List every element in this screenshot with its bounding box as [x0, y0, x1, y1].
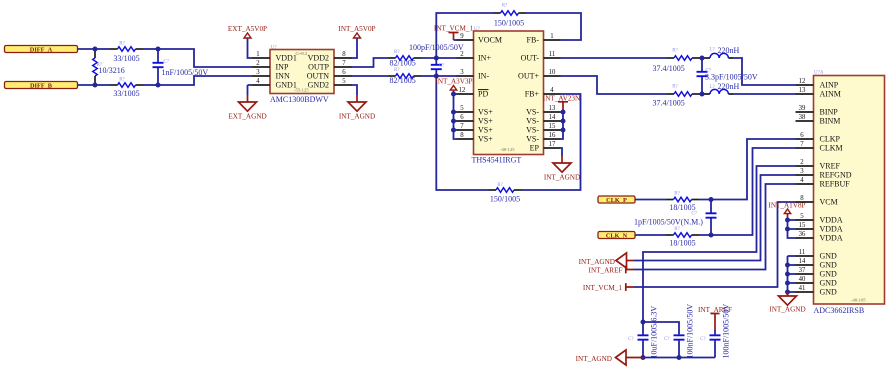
- svg-text:6: 6: [342, 69, 346, 76]
- svg-text:INT_AGND: INT_AGND: [769, 305, 805, 313]
- svg-text:VCM: VCM: [820, 198, 838, 207]
- svg-text:R?: R?: [394, 68, 400, 73]
- svg-text:100nF/1005/50V: 100nF/1005/50V: [686, 304, 695, 359]
- svg-text:U?A: U?A: [814, 71, 824, 76]
- pin 12 AINP: [796, 84, 814, 86]
- svg-text:C?: C?: [439, 63, 445, 68]
- svg-text:C?: C?: [628, 337, 634, 342]
- resistor R? 33/1005 top: [110, 48, 118, 50]
- svg-text:3.3pF/1005/50V: 3.3pF/1005/50V: [705, 72, 758, 81]
- svg-text:INT_AGND: INT_AGND: [339, 113, 375, 121]
- svg-text:BINP: BINP: [820, 108, 839, 117]
- svg-text:AMC1300BDWV: AMC1300BDWV: [270, 95, 329, 104]
- svg-text:220nH: 220nH: [718, 82, 740, 91]
- svg-text:R?: R?: [119, 42, 125, 47]
- svg-text:GND: GND: [820, 270, 838, 279]
- svg-text:INT_AREF: INT_AREF: [589, 266, 623, 274]
- svg-text:4: 4: [800, 177, 804, 184]
- svg-text:9: 9: [460, 33, 464, 40]
- svg-text:IN-: IN-: [478, 72, 489, 81]
- svg-text:VREF: VREF: [820, 162, 841, 171]
- capacitor C? 10uF/1005/6.3V: [642, 322, 644, 334]
- resistor R? 150/1005 top feedback: [493, 12, 501, 14]
- svg-text:INT_VCM_1: INT_VCM_1: [583, 284, 623, 292]
- junction VS+ 5: [451, 110, 456, 115]
- wire VS- bus: [561, 112, 564, 139]
- junction CLKM: [709, 233, 714, 238]
- svg-text:18/1005: 18/1005: [669, 238, 695, 247]
- resistor R? 82/1005 top: [388, 57, 396, 59]
- svg-text:U?: U?: [271, 45, 278, 50]
- pin 3 REFGND: [796, 174, 814, 176]
- svg-text:C?: C?: [664, 337, 670, 342]
- capacitor C? 1nF/1005/50V: [157, 49, 159, 62]
- power INT_AGND at EP: [561, 148, 563, 156]
- pin 3 INN: [252, 75, 270, 77]
- port CLK_P: [598, 196, 635, 203]
- junction GND 40: [785, 281, 790, 286]
- junction PD: [451, 92, 456, 97]
- svg-text:DIFF_A: DIFF_A: [30, 46, 53, 53]
- resistor R? 18/1005 bottom: [666, 234, 674, 236]
- power INT_AGND at AMC: [352, 85, 357, 95]
- svg-text:FB-: FB-: [527, 36, 540, 45]
- power INT_AGND at ADC: [787, 292, 789, 296]
- svg-text:R?: R?: [672, 49, 678, 54]
- svg-text:VDDA: VDDA: [820, 216, 843, 225]
- junction node B: [93, 83, 98, 88]
- svg-text:CLKP: CLKP: [820, 135, 841, 144]
- power EXT_AGND: [247, 85, 249, 95]
- svg-text:R?: R?: [497, 183, 503, 188]
- svg-text:OUTN: OUTN: [307, 72, 329, 81]
- svg-text:GND2: GND2: [308, 81, 329, 90]
- svg-text:G=8.2: G=8.2: [296, 51, 308, 56]
- svg-text:CLKM: CLKM: [820, 144, 843, 153]
- svg-text:EXT_AGND: EXT_AGND: [228, 113, 266, 121]
- svg-text:INT_AGND: INT_AGND: [576, 355, 612, 363]
- wire REFBUF to INT_AREF: [634, 184, 796, 270]
- svg-text:U?: U?: [474, 27, 481, 32]
- svg-text:2: 2: [460, 51, 464, 58]
- wire inductor to AINM: [734, 93, 796, 95]
- pin 2 VREF: [796, 165, 814, 167]
- pin 7 OUTP: [334, 66, 352, 68]
- svg-text:AINM: AINM: [820, 90, 841, 99]
- svg-text:14: 14: [799, 258, 806, 265]
- svg-text:220nH: 220nH: [718, 46, 740, 55]
- svg-text:THS4541IRGT: THS4541IRGT: [472, 156, 522, 165]
- svg-text:11: 11: [549, 51, 556, 58]
- wire decoupling top rail: [643, 322, 679, 334]
- junction rail at C1: [641, 320, 646, 325]
- svg-text:1: 1: [256, 51, 259, 58]
- wire VS+ bus: [454, 93, 457, 95]
- svg-text:6: 6: [800, 132, 804, 139]
- wire to junction bottom: [700, 93, 705, 95]
- svg-text:EP: EP: [530, 144, 540, 153]
- port DIFF_B: [5, 82, 78, 89]
- svg-text:R?: R?: [674, 227, 680, 232]
- pin 16 VS-: [544, 138, 561, 140]
- pin 7 VS+: [457, 129, 474, 131]
- svg-text:REFBUF: REFBUF: [820, 180, 851, 189]
- svg-text:8: 8: [460, 132, 464, 139]
- resistor R? 82/1005 bottom: [388, 75, 396, 77]
- svg-text:CLK_P: CLK_P: [606, 197, 627, 204]
- svg-text:INN: INN: [276, 72, 290, 81]
- svg-text:R?: R?: [672, 85, 678, 90]
- port DIFF_A: [5, 46, 78, 53]
- svg-text:14: 14: [549, 114, 556, 121]
- svg-text:VS-: VS-: [526, 117, 539, 126]
- wire DIFF_A to node: [78, 48, 96, 50]
- svg-text:VDDA: VDDA: [820, 234, 843, 243]
- pin 13 VS-: [544, 111, 561, 113]
- svg-text:13: 13: [549, 105, 556, 112]
- svg-text:-40-105: -40-105: [851, 297, 866, 302]
- wire GND1: [248, 84, 253, 86]
- svg-text:100nF/1005/50V: 100nF/1005/50V: [722, 304, 731, 359]
- svg-text:4: 4: [550, 87, 554, 94]
- wire DIFF_B to node: [78, 84, 96, 86]
- svg-text:1nF/1005/50V: 1nF/1005/50V: [162, 68, 209, 77]
- pin 13 AINM: [796, 93, 814, 95]
- svg-text:4: 4: [256, 78, 260, 85]
- junction IN- node: [434, 74, 439, 79]
- svg-text:C?: C?: [692, 211, 698, 216]
- svg-text:INP: INP: [276, 63, 289, 72]
- pin 1 VDD1: [252, 57, 270, 59]
- svg-text:VS+: VS+: [478, 126, 493, 135]
- svg-text:R?: R?: [394, 50, 400, 55]
- svg-text:38: 38: [799, 114, 806, 121]
- svg-text:2: 2: [256, 60, 260, 67]
- pin 40 GND: [796, 282, 814, 284]
- resistor R? 37.4/1005 bottom: [667, 93, 675, 95]
- port CLK_N: [598, 232, 635, 239]
- svg-text:EXT_A5V0P: EXT_A5V0P: [228, 25, 267, 33]
- svg-text:R?: R?: [502, 3, 508, 8]
- junction VS- 15: [561, 128, 566, 133]
- svg-text:CLK_N: CLK_N: [606, 232, 628, 239]
- pin 6 OUTN: [334, 75, 352, 77]
- wire feedback top: [436, 13, 493, 58]
- svg-text:40: 40: [799, 276, 806, 283]
- svg-text:VS-: VS-: [526, 135, 539, 144]
- wire VCM to INT_VCM_1: [634, 202, 796, 287]
- svg-text:33/1005: 33/1005: [113, 89, 139, 98]
- pin 37 GND: [796, 273, 814, 275]
- wire OUT- to filter: [561, 57, 667, 59]
- svg-text:7: 7: [800, 141, 804, 148]
- svg-text:VS+: VS+: [478, 117, 493, 126]
- svg-text:5: 5: [460, 105, 464, 112]
- pin 36 VDDA: [796, 237, 814, 239]
- svg-text:37: 37: [799, 267, 806, 274]
- svg-text:OUT-: OUT-: [521, 54, 540, 63]
- resistor R? 33/1005 bottom: [110, 84, 118, 86]
- pin 4 FB+: [544, 93, 561, 95]
- svg-text:12: 12: [459, 87, 466, 94]
- svg-text:VOCM: VOCM: [478, 36, 502, 45]
- svg-text:10uF/1005/6.3V: 10uF/1005/6.3V: [650, 306, 659, 359]
- wire CLK_P to R: [635, 199, 666, 201]
- junction VS+ 6: [451, 119, 456, 124]
- svg-text:39: 39: [799, 105, 806, 112]
- svg-text:VDD1: VDD1: [276, 54, 297, 63]
- svg-text:8: 8: [342, 51, 346, 58]
- svg-text:10/3216: 10/3216: [99, 66, 125, 75]
- svg-text:R?: R?: [674, 191, 680, 196]
- pin 14 VS-: [544, 120, 561, 122]
- resistor R? 10/3216 shunt: [94, 51, 96, 59]
- svg-text:GND: GND: [820, 288, 838, 297]
- junction filter bottom: [700, 92, 705, 97]
- wire OUTN: [352, 75, 388, 77]
- svg-text:15: 15: [799, 222, 806, 229]
- pin 5 VS+: [457, 111, 474, 113]
- pin 8 VS+: [457, 138, 474, 140]
- pin 6 CLKP: [796, 138, 814, 140]
- pin 4 REFBUF: [796, 183, 814, 185]
- svg-text:13: 13: [799, 87, 806, 94]
- junction VS+ 7: [451, 128, 456, 133]
- svg-text:VDDA: VDDA: [820, 225, 843, 234]
- pin 14 GND: [796, 264, 814, 266]
- svg-text:11: 11: [799, 249, 806, 256]
- capacitor C? 100pF/1005/50V across inputs: [435, 58, 437, 64]
- resistor R? 18/1005 top: [666, 199, 674, 201]
- junction GND 41: [785, 290, 790, 295]
- wire R to IN- node: [421, 75, 457, 77]
- svg-text:INT_AGND: INT_AGND: [579, 258, 615, 266]
- svg-text:INT_A3V3P: INT_A3V3P: [435, 78, 472, 86]
- pin 4 GND1: [252, 84, 270, 86]
- wire node B bottom rail: [95, 84, 110, 86]
- pin 2 INP: [252, 66, 270, 68]
- pin 3 IN-: [457, 75, 474, 77]
- wire CLK_N to R: [635, 234, 666, 236]
- svg-text:R?: R?: [119, 78, 125, 83]
- svg-text:ADC3662IRSB: ADC3662IRSB: [814, 306, 865, 315]
- junction VS- 14: [561, 119, 566, 124]
- op-amp U? AMC1300BDWV isolated amplifier: [270, 50, 334, 94]
- pin 38 BINM: [796, 120, 814, 122]
- pin 17 EP: [544, 147, 561, 149]
- wire OUT+ jog down: [561, 76, 667, 94]
- svg-text:VDD2: VDD2: [308, 54, 329, 63]
- svg-text:150/1005: 150/1005: [494, 19, 524, 28]
- pin 11 OUT-: [544, 57, 561, 59]
- wire VDDA bus: [788, 220, 796, 238]
- wire OUTP jog: [352, 58, 388, 67]
- pin 1 FB-: [544, 39, 561, 41]
- wire to junction: [700, 57, 705, 59]
- wire node A to R and C top rail: [95, 48, 110, 50]
- svg-text:37.4/1005: 37.4/1005: [653, 99, 685, 108]
- inductor L? 220nH top: [705, 57, 734, 59]
- resistor R? 37.4/1005 top: [667, 57, 675, 59]
- junction top rail at C: [156, 47, 161, 52]
- svg-text:12: 12: [799, 78, 806, 85]
- pin 2 IN+: [457, 57, 474, 59]
- wire GND bus: [788, 255, 796, 257]
- svg-text:5: 5: [800, 213, 804, 220]
- svg-text:7: 7: [342, 60, 346, 67]
- svg-text:INT_AGND: INT_AGND: [544, 173, 580, 181]
- pin 8 VDD2: [334, 57, 352, 59]
- op-amp U? THS4541IRGT fully differential amplifier: [474, 31, 544, 155]
- pin 8 VCM: [796, 201, 814, 203]
- pin 9 VOCM: [457, 39, 474, 41]
- svg-text:-40-125: -40-125: [500, 147, 515, 152]
- svg-text:VS+: VS+: [478, 108, 493, 117]
- wire bottom rail jog into INN: [158, 76, 252, 85]
- svg-text:37.4/1005: 37.4/1005: [653, 64, 685, 73]
- svg-text:VS+: VS+: [478, 135, 493, 144]
- svg-text:3: 3: [460, 69, 464, 76]
- svg-text:C?: C?: [700, 337, 706, 342]
- svg-text:BINM: BINM: [820, 117, 841, 126]
- svg-text:5: 5: [342, 78, 346, 85]
- svg-text:17: 17: [549, 141, 556, 148]
- pin 41 GND: [796, 291, 814, 293]
- svg-text:2: 2: [800, 159, 804, 166]
- svg-text:82/1005: 82/1005: [390, 76, 416, 85]
- junction VDDA 15: [785, 227, 790, 232]
- wire top rail to jog into INP: [158, 49, 252, 67]
- svg-text:GND: GND: [820, 279, 838, 288]
- svg-text:1: 1: [550, 33, 553, 40]
- svg-text:PD: PD: [478, 90, 488, 99]
- svg-text:DIFF_B: DIFF_B: [30, 82, 53, 89]
- pin 10 OUT+: [544, 75, 561, 77]
- wire REFGND to INT_AGND: [634, 175, 796, 261]
- svg-text:FB+: FB+: [525, 90, 540, 99]
- ADC U?A ADC3662IRSB: [814, 76, 885, 305]
- svg-text:L?: L?: [710, 85, 716, 90]
- svg-text:16: 16: [549, 132, 556, 139]
- svg-text:3: 3: [256, 69, 260, 76]
- svg-text:82/1005: 82/1005: [390, 59, 416, 68]
- svg-text:IN+: IN+: [478, 54, 491, 63]
- svg-text:1pF/1005/50V(N.M.): 1pF/1005/50V(N.M.): [634, 217, 703, 226]
- junction IN+ node: [434, 56, 439, 61]
- svg-text:INT_A5V0P: INT_A5V0P: [338, 25, 375, 33]
- wire to CLKP junction: [699, 139, 796, 200]
- capacitor C? 1pF/1005/50V(N.M.) across clock: [710, 200, 712, 213]
- junction bottom rail C2: [677, 355, 682, 360]
- junction bottom rail C1: [641, 355, 646, 360]
- svg-text:8: 8: [800, 195, 804, 202]
- capacitor C? 100nF/1005/50V second: [714, 330, 716, 334]
- junction CLKP: [709, 197, 714, 202]
- svg-text:VS-: VS-: [526, 108, 539, 117]
- pin 6 VS+: [457, 120, 474, 122]
- pin 5 GND2: [334, 84, 352, 86]
- pin 5 VDDA: [796, 219, 814, 221]
- svg-text:10: 10: [549, 69, 556, 76]
- svg-text:7: 7: [460, 123, 464, 130]
- wire decoupling bottom rail: [643, 357, 715, 359]
- svg-text:OUT+: OUT+: [518, 72, 539, 81]
- junction VDDA 5: [785, 218, 790, 223]
- svg-text:33/1005: 33/1005: [113, 54, 139, 63]
- junction node A: [93, 47, 98, 52]
- wire VDD1: [248, 38, 253, 58]
- junction filter top: [700, 56, 705, 61]
- wire VREF to decoupling rail: [643, 166, 796, 322]
- junction GND 14: [785, 263, 790, 268]
- svg-text:INT_VCM_1: INT_VCM_1: [434, 25, 474, 33]
- svg-text:150/1005: 150/1005: [490, 195, 520, 204]
- wire inductor to AINP: [734, 58, 796, 85]
- pin 39 BINP: [796, 111, 814, 113]
- inductor L? 220nH bottom: [705, 93, 734, 95]
- svg-text:15: 15: [549, 123, 556, 130]
- wire R to IN+ node: [421, 57, 457, 59]
- svg-text:6: 6: [460, 114, 464, 121]
- junction GND 37: [785, 272, 790, 277]
- junction VS- 13: [561, 110, 566, 115]
- pin 7 CLKM: [796, 147, 814, 149]
- svg-text:C?: C?: [164, 60, 170, 65]
- pin 12 PD: [457, 93, 474, 95]
- wire to CLKM junction: [699, 148, 796, 235]
- svg-text:GND1: GND1: [276, 81, 297, 90]
- pin 11 GND: [796, 255, 814, 257]
- svg-text:GND: GND: [820, 261, 838, 270]
- svg-text:OUTP: OUTP: [308, 63, 329, 72]
- svg-text:REFGND: REFGND: [820, 171, 852, 180]
- svg-text:L?: L?: [710, 47, 716, 52]
- junction bottom rail at C: [156, 83, 161, 88]
- capacitor C? 100nF/1005/50V first: [678, 341, 680, 358]
- svg-text:41: 41: [799, 285, 806, 292]
- pin 15 VDDA: [796, 228, 814, 230]
- capacitor C? 3.3pF/1005/50V filter: [701, 58, 703, 71]
- svg-text:GND: GND: [820, 252, 838, 261]
- svg-text:3: 3: [800, 168, 804, 175]
- pin 15 VS-: [544, 129, 561, 131]
- svg-text:36: 36: [799, 231, 806, 238]
- svg-text:AINP: AINP: [820, 81, 839, 90]
- wire feedback bottom: [522, 94, 581, 190]
- svg-text:VS-: VS-: [526, 126, 539, 135]
- resistor R? 150/1005 bottom feedback: [489, 189, 497, 191]
